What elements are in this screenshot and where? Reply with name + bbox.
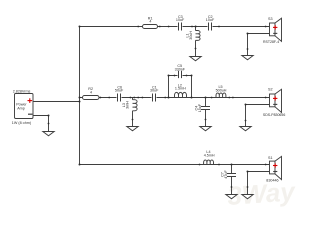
svg-text:2.828Vrms: 2.828Vrms [13, 89, 31, 93]
speaker S3 (tweeter) [248, 18, 282, 41]
svg-text:47uF: 47uF [224, 170, 228, 179]
svg-text:830446: 830446 [266, 179, 278, 183]
svg-text:1.5mH: 1.5mH [175, 86, 186, 90]
svg-text:4: 4 [90, 91, 92, 95]
capacitor C2 [208, 22, 213, 31]
capacitor C6 [117, 93, 122, 102]
inductor L2 [175, 92, 187, 97]
capacitor C3 [178, 22, 183, 31]
wire: C5 parallel branch [169, 76, 192, 98]
wire: bus vertical [79, 27, 81, 165]
ground (L3) [127, 127, 138, 131]
pin dots bottom row [199, 164, 267, 188]
ground (C4) [200, 127, 211, 131]
label R2 / 4 [88, 87, 93, 95]
ground (amp) [43, 132, 54, 136]
label R1 / 4 [148, 16, 153, 23]
svg-text:30uH: 30uH [189, 31, 193, 40]
label C1 / 30uF [150, 86, 159, 93]
pin dots top row [137, 26, 266, 50]
pin dots middle row [100, 75, 267, 121]
label C7 / 47uF (rotated) [221, 170, 228, 179]
inductor L4 [204, 160, 214, 165]
svg-text:S2: S2 [268, 88, 273, 92]
label L1 / 30uH (rotated) [185, 31, 193, 40]
junction dots S3 minus [247, 33, 249, 50]
svg-text:RST28F-4: RST28F-4 [263, 40, 279, 44]
svg-text:Amp: Amp [17, 107, 25, 111]
ground (S1) [242, 195, 253, 199]
svg-text:S3: S3 [268, 17, 273, 21]
label C5 / 330nF [175, 64, 186, 71]
label L4 / 4.5mH [204, 150, 215, 158]
label L3 / 3mH (rotated) [122, 101, 130, 109]
label C6 / 50uF [115, 85, 124, 92]
label C2 / 10uF [206, 15, 215, 22]
ground (S2) [240, 127, 251, 131]
svg-text:S1: S1 [268, 156, 273, 160]
capacitor C7 (shunt) [227, 165, 236, 195]
wire: amp minus to ground [33, 116, 48, 132]
wire: top row horizontal [80, 26, 270, 28]
svg-text:1W (8 ohm): 1W (8 ohm) [12, 121, 31, 125]
svg-text:30uF: 30uF [150, 89, 159, 93]
label C3 / 10uF [176, 15, 185, 22]
resistor R1 [143, 25, 158, 29]
svg-text:4.5mH: 4.5mH [204, 154, 215, 158]
wire: amp plus to bus [33, 101, 79, 103]
svg-text:3Way: 3Way [226, 176, 297, 210]
speaker S1 (woofer) [248, 156, 282, 179]
wire: middle row horizontal [80, 97, 270, 99]
resistor R2 [83, 96, 100, 100]
ground (S3) [242, 56, 253, 60]
svg-text:50uF: 50uF [115, 88, 124, 92]
label L5 / 500uH [216, 85, 227, 92]
wire: S3 minus to ground [247, 34, 249, 56]
label C4 / 15uF (rotated) [195, 103, 202, 112]
label L2 / 1.5mH [175, 83, 186, 90]
ground (L1) [190, 57, 201, 61]
inductor L3 (vertical, shunt) [133, 98, 138, 127]
junction dots S1 minus [247, 171, 249, 188]
capacitor C1 [152, 93, 157, 102]
svg-text:SDS-P830656: SDS-P830656 [263, 113, 285, 117]
inductor L1 (vertical, shunt) [196, 27, 201, 57]
svg-text:3mH: 3mH [126, 101, 130, 109]
wire: bottom row horizontal [80, 164, 270, 166]
ground (C7) [226, 195, 237, 199]
power amp source VG1 [15, 94, 34, 119]
svg-text:10uF: 10uF [176, 18, 185, 22]
svg-text:330nF: 330nF [175, 67, 186, 71]
wire: S2 minus to ground [245, 105, 247, 127]
inductor L5 [216, 93, 226, 98]
wire: S1 minus to ground [247, 172, 249, 195]
speaker S2 (midrange) [246, 89, 282, 112]
capacitor C4 (shunt) [201, 98, 210, 127]
junction dots bus and amp [48, 26, 81, 166]
svg-text:10uF: 10uF [206, 18, 215, 22]
junction dots S2 minus [245, 104, 247, 122]
svg-text:15uF: 15uF [198, 103, 202, 112]
svg-text:500uH: 500uH [216, 88, 227, 92]
capacitor C5 [178, 71, 183, 78]
svg-text:4: 4 [149, 20, 151, 24]
watermark [226, 176, 297, 211]
